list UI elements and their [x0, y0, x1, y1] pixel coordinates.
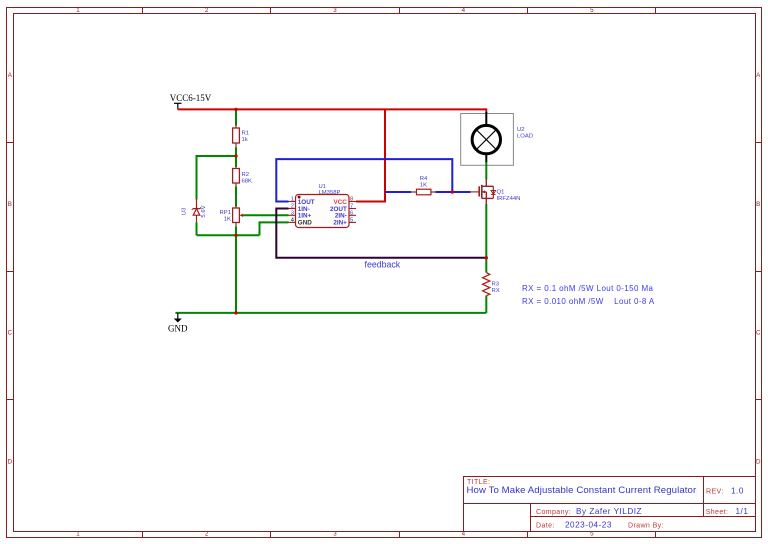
- svg-text:D: D: [756, 459, 761, 466]
- svg-text:4: 4: [462, 7, 466, 14]
- wire purple feedback: [276, 209, 486, 258]
- wire green RP1 wiper to op-amp 1IN+: [244, 214, 289, 216]
- svg-text:2: 2: [205, 7, 209, 14]
- svg-text:2IN-: 2IN-: [335, 213, 347, 220]
- svg-text:3: 3: [291, 211, 294, 217]
- svg-text:By Zafer YILDIZ: By Zafer YILDIZ: [576, 507, 642, 516]
- wire green RP1 bottom: [235, 227, 237, 236]
- svg-text:U3: U3: [182, 207, 188, 215]
- wire green zener top branch: [196, 155, 198, 200]
- svg-text:C: C: [756, 330, 761, 337]
- svg-text:RX = 0.1 ohM /5W Lout 0-150 Ma: RX = 0.1 ohM /5W Lout 0-150 Ma: [522, 284, 654, 293]
- wire green step up to op-amp GND pin: [260, 222, 289, 235]
- svg-text:Q1: Q1: [497, 190, 505, 196]
- svg-text:GND: GND: [298, 220, 312, 227]
- svg-text:B: B: [8, 201, 12, 208]
- svg-text:Drawn By:: Drawn By:: [628, 523, 664, 530]
- svg-text:Sheet:: Sheet:: [706, 509, 729, 516]
- node junction bottom rail: [234, 311, 237, 314]
- svg-text:RX = 0.010 ohM /5W Lout 0-8: RX = 0.010 ohM /5W Lout 0-8 A: [522, 297, 655, 306]
- svg-text:1K: 1K: [420, 182, 427, 188]
- frame row letters right: [756, 72, 761, 466]
- wire green source down: [485, 204, 487, 273]
- VCC power symbol: [174, 103, 182, 109]
- wire blue R4 left stub: [385, 191, 411, 193]
- node junction rail/R1: [234, 108, 237, 111]
- resistor R2: [233, 166, 252, 187]
- svg-text:2023-04-23: 2023-04-23: [565, 521, 612, 530]
- svg-text:1: 1: [291, 197, 294, 203]
- wire green R1 to junction: [235, 148, 237, 157]
- svg-text:LOAD: LOAD: [517, 134, 533, 140]
- wire green R2-RP1: [235, 187, 237, 207]
- wire green main down to bottom rail: [235, 235, 237, 313]
- svg-text:1IN+: 1IN+: [298, 213, 312, 220]
- resistor R1: [233, 124, 249, 148]
- wire green R3 to bottom rail: [485, 296, 487, 313]
- svg-text:RX: RX: [492, 288, 500, 294]
- svg-text:1/1: 1/1: [736, 507, 749, 516]
- svg-text:68K: 68K: [242, 179, 253, 185]
- svg-text:B: B: [756, 201, 760, 208]
- op-amp U1 LM358P: [289, 184, 357, 228]
- wire green bottom loop: [197, 234, 260, 236]
- resistor R3 (zigzag): [483, 273, 500, 296]
- ground symbol GND: [168, 313, 188, 334]
- svg-text:7: 7: [350, 204, 353, 210]
- svg-text:VCC6-15V: VCC6-15V: [170, 93, 212, 103]
- svg-text:How To Make Adjustable Constan: How To Make Adjustable Constant Current …: [467, 485, 697, 496]
- wire red riser from op-amp VCC: [356, 109, 385, 201]
- svg-text:1K: 1K: [224, 217, 231, 223]
- wire red drop to lamp: [485, 108, 487, 113]
- node junction feedback/source: [485, 256, 488, 259]
- svg-text:Company:: Company:: [536, 509, 571, 516]
- svg-text:2IN+: 2IN+: [333, 220, 347, 227]
- svg-text:U2: U2: [517, 127, 525, 133]
- svg-text:IRFZ44N: IRFZ44N: [497, 196, 521, 202]
- wire green junction to zener branch: [197, 155, 237, 157]
- svg-text:5: 5: [350, 218, 353, 224]
- svg-text:2: 2: [205, 531, 209, 538]
- wire green bottom rail: [175, 312, 486, 314]
- wire green zener bottom: [196, 223, 198, 236]
- svg-text:RP1: RP1: [220, 210, 231, 216]
- svg-text:R2: R2: [242, 172, 250, 178]
- zener diode U3: [182, 199, 208, 224]
- potentiometer RP1: [220, 205, 244, 227]
- node junction RP1 bottom: [234, 234, 237, 237]
- transistor Q1 IRFZ44N: [471, 179, 521, 205]
- svg-text:D: D: [8, 459, 13, 466]
- wire green lamp to mosfet: [485, 162, 487, 180]
- svg-text:Date:: Date:: [536, 523, 555, 530]
- svg-text:R3: R3: [492, 282, 500, 288]
- wire green R1-R2: [235, 156, 237, 167]
- node junction blue T: [451, 190, 454, 193]
- svg-text:1.0: 1.0: [731, 487, 744, 496]
- svg-text:C: C: [8, 330, 13, 337]
- svg-text:R4: R4: [420, 176, 428, 182]
- svg-text:R1: R1: [242, 131, 250, 137]
- lamp U2 LOAD: [461, 112, 533, 165]
- wire green R1 top lead: [235, 109, 237, 125]
- wire blue R4 to gate: [436, 191, 471, 193]
- svg-text:REV:: REV:: [706, 489, 724, 496]
- wire blue 1OUT loop: [276, 159, 452, 201]
- svg-text:GND: GND: [168, 324, 188, 334]
- wire VCC top rail (red): [178, 108, 487, 110]
- node junction R1/R2/zener: [234, 154, 237, 157]
- svg-text:8: 8: [350, 197, 353, 203]
- svg-text:5: 5: [590, 7, 594, 14]
- svg-text:3: 3: [333, 531, 337, 538]
- svg-text:1k: 1k: [242, 137, 248, 143]
- frame row letters left: [8, 72, 13, 466]
- svg-text:1: 1: [76, 531, 80, 538]
- wire blue gate stub: [467, 191, 471, 193]
- title block: [464, 477, 756, 532]
- pin names: [298, 199, 347, 227]
- frame column numbers bottom: [76, 531, 594, 538]
- svg-text:feedback: feedback: [365, 259, 401, 269]
- svg-text:3: 3: [333, 7, 337, 14]
- svg-text:1: 1: [76, 7, 80, 14]
- svg-text:6: 6: [350, 211, 353, 217]
- svg-text:5.6V: 5.6V: [201, 205, 207, 217]
- pin numbers: [291, 197, 295, 224]
- frame column numbers top: [76, 7, 594, 14]
- svg-text:2: 2: [291, 204, 294, 210]
- resistor R4: [411, 176, 436, 195]
